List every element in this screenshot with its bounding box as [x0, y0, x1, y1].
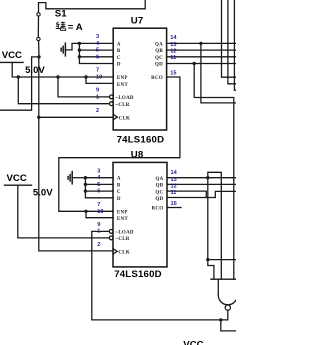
wire ground stub U8	[72, 177, 85, 179]
svg-text:14: 14	[170, 35, 177, 41]
svg-text:S1: S1	[55, 8, 67, 19]
svg-text:QB: QB	[156, 184, 164, 189]
svg-text:QC: QC	[155, 190, 163, 195]
U7 ~CLR bubble	[110, 102, 114, 106]
wire U8 pin A	[85, 177, 113, 179]
svg-text:15: 15	[170, 70, 176, 76]
wire U7 RCO to U8 ENP	[59, 77, 180, 211]
node U7 bus B	[78, 48, 81, 51]
U8 ~LOAD bubble	[109, 230, 113, 234]
wire U7 pin C	[79, 56, 113, 58]
wire U8 pin C	[85, 190, 113, 192]
svg-text:5.0V: 5.0V	[25, 65, 45, 76]
switch S1 blade	[37, 16, 39, 37]
wire U7 QB	[167, 49, 236, 51]
svg-text:ENT: ENT	[117, 83, 128, 88]
svg-text:C: C	[117, 190, 121, 195]
wire U7 pin A	[79, 42, 113, 44]
svg-text:U8: U8	[131, 150, 144, 161]
gate U9 NAND body arc	[218, 279, 237, 305]
node switch bottom junction	[37, 55, 40, 58]
svg-text:CLK: CLK	[119, 116, 131, 121]
node U8 bus B	[84, 183, 87, 186]
wire gate output branch exit	[221, 320, 236, 331]
wire U8 input bus	[85, 178, 113, 198]
svg-text:11: 11	[171, 190, 177, 196]
U7 ~LOAD bubble	[110, 95, 114, 99]
node U8 QA junction	[206, 176, 209, 179]
wire branch to U7 ~LOAD	[58, 77, 110, 97]
svg-text:74LS160D: 74LS160D	[117, 135, 165, 146]
node U7 QD branch	[193, 62, 196, 65]
power VCC2 bar	[5, 184, 32, 186]
svg-text:QD: QD	[155, 63, 163, 68]
wire U8 QA branch right exit	[208, 259, 236, 261]
wire ground to bus A	[65, 43, 79, 50]
ground U8	[71, 172, 73, 184]
wire switch net down to CLK junction	[38, 57, 40, 117]
svg-text:1: 1	[97, 229, 100, 235]
svg-text:A: A	[117, 42, 121, 47]
svg-text:5.0V: 5.0V	[33, 188, 53, 199]
wire right stub 1	[222, 0, 237, 77]
wire U8 QA stepover to gate	[208, 172, 222, 279]
wire gate output	[227, 310, 229, 320]
wire switch bottom	[38, 41, 40, 57]
wire branch to U7 ~CLR	[18, 77, 109, 104]
node U8 bus A	[84, 176, 87, 179]
node VCC1 rail / LOAD branch	[56, 75, 59, 78]
svg-text:VCC: VCC	[7, 173, 27, 184]
svg-text:11: 11	[170, 55, 176, 61]
svg-text:13: 13	[171, 177, 177, 183]
wire U7 QA branch down	[201, 43, 236, 103]
node U8 bus C	[84, 189, 87, 192]
svg-text:13: 13	[170, 42, 176, 48]
svg-text:A: A	[117, 177, 121, 182]
wire U8 QA jog to gate input	[208, 260, 214, 280]
svg-text:9: 9	[97, 222, 100, 228]
node U7 QA branch	[199, 42, 202, 45]
svg-text:1: 1	[96, 94, 99, 100]
wire U8 QC	[167, 191, 206, 197]
wire U7 QC	[167, 56, 236, 58]
svg-text:QA: QA	[155, 177, 163, 182]
U8 ~CLR bubble	[109, 236, 113, 240]
svg-text:QC: QC	[155, 56, 163, 61]
svg-text:2: 2	[97, 242, 100, 248]
wire U8 QB	[167, 183, 236, 185]
svg-text:VCC: VCC	[183, 339, 203, 345]
svg-text:QA: QA	[155, 42, 163, 47]
svg-text:ENP: ENP	[117, 211, 128, 216]
label key = A	[56, 22, 66, 31]
switch S1 top terminal	[37, 13, 40, 16]
wire VCC1 to ENP rail	[12, 62, 113, 77]
svg-text:7: 7	[97, 202, 100, 208]
node CLK junction	[37, 116, 40, 119]
node VCC1 rail / CLR branch	[17, 75, 20, 78]
op U7 chip box	[113, 28, 166, 130]
wire node to left branch	[0, 57, 39, 110]
svg-text:D: D	[117, 63, 121, 68]
svg-text:12: 12	[171, 184, 177, 190]
svg-text:B: B	[117, 183, 121, 188]
svg-text:2: 2	[96, 108, 99, 114]
switch S1 bottom terminal	[37, 37, 40, 40]
svg-text:CLK: CLK	[118, 251, 130, 256]
svg-text:= A: = A	[68, 22, 83, 33]
svg-text:3: 3	[97, 168, 100, 174]
svg-text:QD: QD	[155, 197, 163, 202]
wire right stub 2	[228, 0, 236, 84]
svg-text:U7: U7	[131, 15, 144, 26]
svg-text:3: 3	[96, 34, 99, 40]
svg-text:ENT: ENT	[117, 217, 128, 222]
svg-text:7: 7	[96, 68, 99, 74]
wire U7 QA	[167, 42, 236, 44]
node U7 bus A	[78, 42, 81, 45]
wire U7 CLK	[39, 116, 113, 118]
wire U8 QA	[167, 177, 236, 179]
wire U7 ENT step	[86, 77, 113, 83]
svg-text:10: 10	[96, 75, 102, 81]
gate U9 NAND bubble	[225, 305, 230, 310]
node U7 ENP/ENT	[84, 75, 87, 78]
svg-text:9: 9	[96, 88, 99, 94]
svg-text:RCO: RCO	[152, 207, 164, 212]
svg-text:~LOAD: ~LOAD	[116, 231, 134, 236]
wire U8 pin B	[85, 183, 113, 185]
svg-text:ENP: ENP	[117, 76, 128, 81]
wire U8 RCO stub	[167, 207, 181, 209]
wire U8 ~LOAD from gate output	[92, 231, 228, 320]
svg-text:74LS160D: 74LS160D	[114, 269, 162, 280]
node U8 ENP/ENT	[84, 210, 87, 213]
node gate output junction	[219, 318, 222, 321]
svg-text:6: 6	[97, 189, 100, 195]
wire U7 input bus	[79, 43, 113, 63]
svg-text:VCC: VCC	[2, 50, 22, 61]
svg-text:~CLR: ~CLR	[116, 103, 130, 108]
svg-text:15: 15	[171, 201, 177, 207]
wire U8 ENT step	[86, 211, 113, 217]
svg-text:D: D	[117, 197, 121, 202]
svg-text:6: 6	[96, 54, 99, 60]
node U7 bus C	[78, 55, 81, 58]
gate U9 NAND input edge	[211, 278, 236, 280]
node U8 QA lower junction	[206, 258, 209, 261]
wire U8 QD jog	[167, 191, 236, 197]
op U8 chip box	[113, 162, 167, 267]
svg-text:12: 12	[170, 49, 176, 55]
svg-text:QB: QB	[155, 49, 163, 54]
svg-text:14: 14	[171, 170, 178, 176]
wire CLK net down to U8	[39, 117, 113, 251]
svg-text:5: 5	[97, 182, 100, 188]
wire right stub 3	[234, 0, 236, 90]
wire VCC2 to U8 ~CLR	[18, 185, 110, 238]
ground U7	[64, 43, 66, 56]
svg-text:~CLR: ~CLR	[116, 237, 130, 242]
gate U9 NAND left side	[217, 279, 219, 295]
svg-text:10: 10	[97, 209, 103, 215]
svg-text:C: C	[117, 56, 121, 61]
power VCC1 bar	[0, 61, 23, 63]
wire U7 QD branch down to gate	[194, 64, 234, 280]
U8 CLK triangle	[113, 249, 117, 254]
svg-text:~LOAD: ~LOAD	[116, 96, 134, 101]
svg-text:5: 5	[96, 48, 99, 54]
wire U8 QA down branch	[207, 178, 209, 260]
wire U7 QD	[167, 63, 236, 65]
svg-text:RCO: RCO	[151, 76, 163, 81]
U7 CLK triangle	[113, 114, 117, 119]
wire U7 pin B	[79, 49, 113, 51]
svg-text:B: B	[117, 49, 121, 54]
wire switch top to image top	[39, 0, 146, 13]
